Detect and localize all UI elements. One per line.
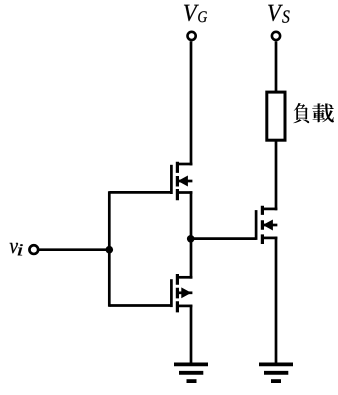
transistor M1 (upper NMOS): [171, 162, 192, 201]
input vi label: [10, 243, 23, 256]
transistor M2 (lower, body arrow out): [171, 274, 192, 312]
wire to M1 gate: [109, 191, 171, 194]
ground right: [259, 364, 293, 381]
terminal vi: [29, 245, 38, 254]
wire VG terminal to M1 drain: [190, 41, 193, 165]
terminal VG: [188, 32, 196, 40]
junction node to M3 gate: [187, 235, 195, 243]
wire to M2 gate: [109, 304, 171, 307]
wire M1 source to M2 drain: [190, 191, 193, 278]
node VS label: [268, 5, 289, 23]
terminal VS: [272, 32, 280, 40]
wire M3 source to ground: [275, 237, 278, 363]
wire input vertical: [108, 191, 111, 307]
ground left: [174, 364, 208, 381]
load resistor RL: [267, 92, 285, 140]
transistor M3 (right NMOS): [256, 206, 277, 244]
wire vi to junction: [39, 248, 110, 251]
wire load to M3 drain: [275, 140, 278, 210]
wire junction to M3 gate: [191, 237, 256, 240]
junction node input: [106, 246, 114, 254]
load label 負載: [293, 103, 334, 123]
node VG label: [184, 5, 207, 23]
wire VS terminal to load: [275, 41, 278, 92]
wire M2 source to ground: [190, 305, 193, 363]
